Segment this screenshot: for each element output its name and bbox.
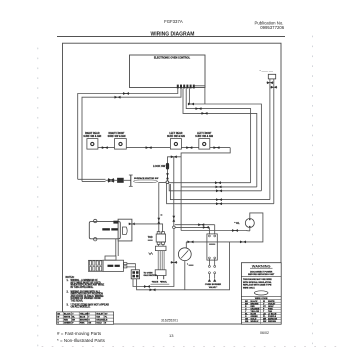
svg-text:IN THIS APPLIANCE.: IN THIS APPLIANCE. bbox=[71, 286, 94, 289]
surface burner switch SW4 bbox=[195, 133, 213, 149]
wire N vertical bbox=[273, 79, 275, 204]
surface burner switch SW1 bbox=[83, 132, 101, 149]
svg-text:W: W bbox=[57, 317, 59, 319]
wire node fan 1 bbox=[169, 183, 251, 184]
svg-text:LOCK SW: LOCK SW bbox=[153, 164, 166, 168]
connector below lock bbox=[166, 173, 169, 180]
svg-text:SURF SW & IGN: SURF SW & IGN bbox=[195, 136, 213, 138]
svg-text:BEFORE SERVICING UNIT: BEFORE SERVICING UNIT bbox=[248, 274, 275, 276]
connector on L1 wire bbox=[267, 81, 274, 84]
connector on light return bbox=[240, 241, 247, 244]
wire to ignitor bar bbox=[124, 179, 131, 181]
svg-text:0995377206: 0995377206 bbox=[260, 25, 285, 30]
svg-text:ELECTRONIC OVEN CONTROL: ELECTRONIC OVEN CONTROL bbox=[154, 57, 191, 60]
svg-text:TAN: TAN bbox=[96, 316, 100, 319]
wire node to relay coil A bbox=[175, 226, 209, 228]
svg-text:RIGHT FRONT: RIGHT FRONT bbox=[109, 133, 125, 135]
connector pair on ignitor harness bbox=[108, 178, 115, 181]
svg-text:LEFT REAR: LEFT REAR bbox=[169, 132, 182, 135]
svg-text:SURF SW & IGN: SURF SW & IGN bbox=[83, 136, 101, 138]
wire across to oven light bbox=[181, 230, 246, 232]
surface ignitor electrode bbox=[134, 180, 158, 183]
gas valve body bbox=[89, 219, 120, 241]
svg-text:REPLACE WITH SAME TYPE: REPLACE WITH SAME TYPE bbox=[243, 284, 272, 287]
surface burner switch SW3 bbox=[167, 132, 185, 149]
connector after SW4 bbox=[213, 146, 220, 149]
TOD thermostat bbox=[148, 232, 166, 245]
ignitor plug block bbox=[117, 178, 124, 183]
oven relay K1 bbox=[207, 234, 217, 260]
oven ignitor block bbox=[155, 270, 166, 276]
connector on valve top bbox=[113, 221, 118, 224]
electronic oven control U1 bbox=[130, 55, 206, 88]
wire gas valve to spark module bbox=[115, 239, 117, 256]
connector on wire A bbox=[123, 92, 130, 95]
svg-text:ON ALL MODELS.: ON ALL MODELS. bbox=[71, 306, 91, 309]
svg-text:RW: RW bbox=[263, 321, 266, 323]
svg-text:RIGHT REAR: RIGHT REAR bbox=[85, 132, 100, 135]
svg-text:THIS RANGE MAY USE WIRE: THIS RANGE MAY USE WIRE bbox=[243, 278, 272, 281]
wire node down to spark return bbox=[133, 229, 174, 287]
svg-text:FGF337A: FGF337A bbox=[164, 19, 183, 24]
wire node fan 4 to L1 bbox=[170, 184, 270, 200]
connector at valve output bbox=[128, 223, 135, 226]
wire lock tee down to relay node bbox=[173, 157, 175, 226]
scan artifact dotted line bottom bbox=[42, 346, 340, 348]
svg-text:06/02: 06/02 bbox=[260, 331, 269, 335]
svg-text:WH/BLK: WH/BLK bbox=[251, 321, 260, 323]
wire node to relay coil B bbox=[175, 224, 215, 226]
wire node fan 5 to N bbox=[167, 184, 274, 204]
notes block bbox=[66, 277, 110, 309]
svg-text:1.: 1. bbox=[67, 280, 69, 282]
wire node to TOD bbox=[159, 183, 167, 233]
wire valve to TOD right pin bbox=[130, 224, 163, 232]
svg-text:3.: 3. bbox=[67, 304, 69, 306]
connector on spark return bbox=[144, 285, 151, 288]
connector on lock branch bbox=[170, 155, 177, 158]
svg-text:WITH SPECIAL INSULATION.: WITH SPECIAL INSULATION. bbox=[243, 281, 272, 284]
svg-text:BROWN: BROWN bbox=[80, 320, 88, 322]
scan artifact dotted line right bbox=[312, 36, 314, 346]
svg-text:RED: RED bbox=[64, 320, 69, 322]
wire relay feeds down bbox=[208, 227, 210, 234]
bottom bus wire bbox=[137, 242, 230, 290]
svg-text:*BROIL: *BROIL bbox=[160, 281, 168, 283]
wire EOC to right rail 2 bbox=[186, 88, 250, 182]
svg-text:* OL: * OL bbox=[234, 221, 240, 225]
svg-text:VIOLET: VIOLET bbox=[96, 313, 104, 315]
oven light OL1 bbox=[234, 219, 254, 232]
motor M1 bbox=[178, 248, 194, 266]
connector between SW2 SW3 bbox=[145, 146, 152, 149]
connector on light wire bbox=[232, 229, 239, 232]
svg-text:* = Non-Illustrated Parts: * = Non-Illustrated Parts bbox=[57, 338, 106, 343]
wire motor to bottom bus bbox=[184, 261, 186, 290]
svg-text:2.: 2. bbox=[67, 291, 69, 293]
svg-text:GREEN: GREEN bbox=[64, 323, 71, 325]
connector on bottom bus bbox=[149, 288, 156, 291]
wire burner row return loop bbox=[181, 148, 230, 231]
node terminal circle bbox=[166, 181, 169, 184]
svg-text:PINK: PINK bbox=[80, 323, 85, 325]
surface burner switch SW2 bbox=[108, 133, 127, 149]
wire to motor bbox=[185, 242, 187, 248]
wire L1 vertical bbox=[269, 79, 271, 200]
connector on tee wire bbox=[172, 215, 175, 222]
connector P1 pins on oven control bbox=[177, 85, 195, 89]
spark module output pins bbox=[124, 263, 127, 265]
svg-text:**: ** bbox=[161, 215, 163, 218]
wire module pins to connector bbox=[127, 264, 135, 270]
svg-text:13: 13 bbox=[169, 333, 174, 338]
connector on TOD wire bbox=[157, 217, 160, 224]
svg-text:YELLOW: YELLOW bbox=[80, 313, 88, 315]
connector on right wire 3 bbox=[201, 112, 208, 115]
spark ignition connector block bbox=[131, 270, 139, 279]
svg-text:316255201: 316255201 bbox=[161, 319, 178, 323]
wire code table bbox=[241, 295, 281, 297]
scan artifact dotted line left bbox=[37, 48, 39, 348]
page border frame bbox=[63, 43, 282, 324]
connector between SW1 SW2 bbox=[101, 146, 108, 149]
surface ignitor harness wires bbox=[78, 178, 106, 180]
connector on wire B bbox=[114, 96, 121, 99]
svg-text:GAS IGNITOR: GAS IGNITOR bbox=[144, 274, 158, 277]
connector on right wire 2 bbox=[195, 107, 202, 110]
header rule line bbox=[57, 36, 285, 38]
connector on right wire 1 bbox=[188, 103, 195, 106]
svg-text:WHITE: WHITE bbox=[64, 317, 71, 319]
wire EOC to right rail 1 bbox=[189, 88, 261, 190]
relay output stems bbox=[209, 259, 214, 279]
svg-text:SURF SW & IGN: SURF SW & IGN bbox=[167, 136, 185, 138]
surface ignitor bar bbox=[130, 175, 132, 186]
wire EOC pin to left rail B bbox=[82, 88, 181, 181]
svg-text:NOTES:: NOTES: bbox=[66, 277, 75, 279]
ignitor block stubs bbox=[157, 276, 159, 280]
wire EOC pin to left rail A bbox=[78, 88, 178, 179]
svg-text:GOLD: GOLD bbox=[96, 323, 102, 325]
connector on relay feed A bbox=[203, 226, 210, 229]
connector on N wire bbox=[270, 86, 277, 89]
svg-text:LEFT FRONT: LEFT FRONT bbox=[197, 133, 212, 135]
lock switch fuse body bbox=[166, 163, 169, 170]
gas valve solenoid bracket bbox=[118, 219, 132, 241]
svg-text:BLACK: BLACK bbox=[64, 312, 71, 315]
svg-text:WIRE ONLY.: WIRE ONLY. bbox=[243, 287, 255, 289]
svg-text:* ▬▬: * ▬▬ bbox=[187, 263, 194, 266]
warning box bbox=[241, 263, 281, 325]
wire color table left bbox=[57, 312, 114, 325]
svg-text:BLUE: BLUE bbox=[80, 317, 86, 319]
oven ignitor leads bbox=[157, 251, 159, 270]
svg-text:▬▬▬: ▬▬▬ bbox=[209, 243, 215, 245]
svg-text:* ─── ──: * ─── ── bbox=[260, 69, 274, 73]
wire lock to node bbox=[167, 170, 169, 181]
wire EOC to right rail 3 bbox=[183, 88, 257, 186]
svg-text:RED/WH: RED/WH bbox=[268, 321, 277, 323]
svg-text:*BAKE: *BAKE bbox=[152, 280, 159, 283]
node circle on tee wire bbox=[173, 226, 176, 229]
svg-text:# = Fast-moving Parts: # = Fast-moving Parts bbox=[57, 331, 102, 336]
short lead line bbox=[151, 283, 170, 285]
wire oven light return loop bbox=[186, 213, 263, 242]
svg-text:SURF SW & IGN: SURF SW & IGN bbox=[108, 136, 126, 138]
connector on node down wire bbox=[171, 261, 178, 264]
wire node fan 2 bbox=[181, 186, 257, 188]
wire TOD bottom drops bbox=[158, 244, 160, 246]
oven ignitor header block bbox=[155, 246, 166, 250]
svg-text:THE REAR.: THE REAR. bbox=[71, 300, 84, 303]
ignitor squiggle bbox=[149, 253, 153, 255]
power plug J1 bbox=[268, 74, 275, 79]
wire node fan 3 bbox=[169, 184, 261, 191]
connector on relay feed B bbox=[198, 223, 205, 226]
spark module HV tower comb bbox=[88, 260, 103, 271]
wire burner row bbox=[98, 147, 115, 149]
svg-text:WARNING: WARNING bbox=[252, 263, 271, 268]
relay stem arrowheads bbox=[208, 279, 211, 282]
wire lock switch branch bbox=[168, 157, 182, 163]
svg-text:▬▬: ▬▬ bbox=[148, 239, 153, 241]
spark module body bbox=[103, 256, 124, 271]
svg-text:WB: WB bbox=[245, 321, 249, 323]
connector between SW3 SW4 bbox=[186, 146, 193, 149]
svg-text:VALVE *: VALVE * bbox=[209, 286, 218, 289]
wire EOC elbow to rail bbox=[194, 86, 205, 104]
